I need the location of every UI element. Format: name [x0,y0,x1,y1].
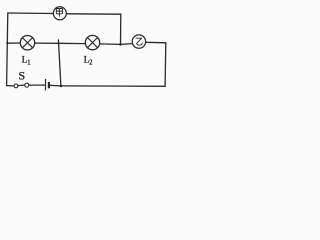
wire: top wire left segment [8,12,54,15]
node: junction of drop vertical and middle wire [119,43,122,46]
lamp L1 cross [22,38,32,48]
wire: bottom segment (branch junction to right vertical) [61,85,165,87]
wire: left vertical [7,13,8,86]
battery positive plate (long thin) [45,79,47,90]
node: branch junction on bottom wire [60,85,63,88]
wire: middle wire segment A (left vertical to lamp L1) [7,42,20,44]
lamp L2 circle [85,35,99,49]
switch S left terminal [14,84,18,88]
battery negative plate (short thick) [48,82,50,88]
wire: top wire right segment [66,13,120,15]
wire: middle wire segment B (L1 to branch junction) [35,42,59,44]
wire: right vertical [164,43,167,87]
wire: middle wire segment F (meter to right vertical) [146,41,166,44]
meter M1 (jia) circle [53,7,66,20]
switch S lever [18,84,25,87]
wire: middle wire segment D (L2 to drop junction) [100,43,121,46]
meter M1 (jia) character glyph [56,9,62,17]
wire: middle wire segment C (branch junction to lamp L2) [58,42,85,44]
node: branch junction on middle wire [57,42,59,44]
lamp L1 circle [20,36,34,50]
wire: middle wire segment E (drop junction to meter circle) [121,43,133,46]
svg-text:2: 2 [89,60,93,67]
meter M2 (yi) circle [132,35,145,48]
wire: bottom segment (switch to battery) [29,84,45,86]
wire: branch vertical (middle wire down to bottom wire) [58,40,61,86]
lamp L2 cross [87,38,97,48]
meter M2 (yi) character glyph [136,38,142,45]
wire: drop vertical from top wire to middle wire [120,14,122,44]
svg-text:S: S [19,68,26,82]
wire: bottom segment (left vertical to switch) [7,85,15,87]
svg-text:1: 1 [27,60,30,67]
node: faint terminal tick on middle wire left of drop junction [104,43,106,45]
switch S right terminal [25,83,29,87]
wire: bottom segment (battery to branch junction) [49,84,61,87]
